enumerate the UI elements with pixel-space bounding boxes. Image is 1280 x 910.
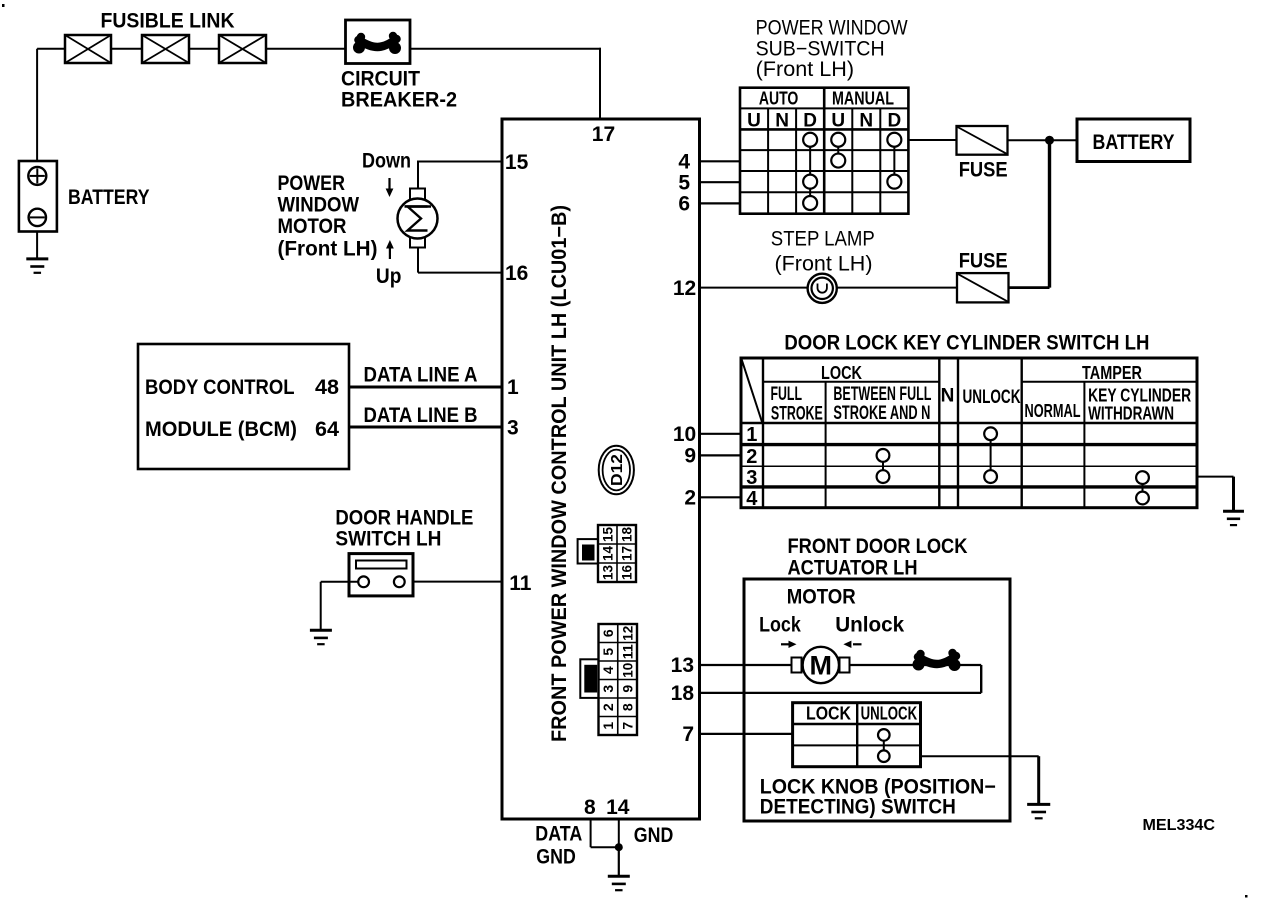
svg-text:17: 17 xyxy=(592,123,615,146)
wire pin 2 to key cylinder row4 xyxy=(700,496,742,498)
svg-text:1: 1 xyxy=(600,722,616,730)
connector 13-18 key tab xyxy=(578,539,598,563)
svg-text:DOOR LOCK KEY CYLINDER SWITCH: DOOR LOCK KEY CYLINDER SWITCH LH xyxy=(784,332,1149,355)
svg-text:15: 15 xyxy=(600,527,616,542)
wire circuit breaker to pin 17 corner xyxy=(410,48,601,50)
svg-text:FUSIBLE LINK: FUSIBLE LINK xyxy=(101,10,235,33)
svg-text:14: 14 xyxy=(600,546,616,561)
sub-switch link auto-D rows3-4 xyxy=(809,189,811,196)
svg-text:10: 10 xyxy=(619,663,635,678)
svg-text:M: M xyxy=(810,651,833,681)
svg-text:GND: GND xyxy=(634,824,674,847)
svg-text:ACTUATOR LH: ACTUATOR LH xyxy=(788,557,918,580)
battery (left) symbol xyxy=(19,161,57,232)
wire fusible link 3 to circuit breaker xyxy=(266,48,346,50)
key cylinder contact between row2 xyxy=(877,449,890,462)
up arrow xyxy=(386,240,394,259)
key cylinder contact withdrawn row4 xyxy=(1136,492,1149,505)
svg-text:18: 18 xyxy=(671,682,695,705)
sub-switch contact manual-D row3 xyxy=(887,175,901,189)
svg-text:POWER: POWER xyxy=(278,172,346,195)
svg-text:N: N xyxy=(775,111,789,132)
ground (battery) xyxy=(26,259,48,273)
svg-text:13: 13 xyxy=(600,565,616,580)
svg-text:8: 8 xyxy=(584,796,596,819)
wire between fusible links 1-2 xyxy=(111,48,142,50)
wire sub-switch to fuse xyxy=(908,139,956,141)
svg-text:2: 2 xyxy=(746,446,757,468)
front door lock actuator box xyxy=(744,579,1010,821)
svg-text:2: 2 xyxy=(600,703,616,711)
svg-text:BATTERY: BATTERY xyxy=(68,186,150,209)
wire pin 5 to sub-switch xyxy=(700,181,741,183)
svg-text:DOOR HANDLE: DOOR HANDLE xyxy=(335,507,473,530)
fusible link 2 xyxy=(142,35,189,63)
svg-text:SWITCH LH: SWITCH LH xyxy=(335,528,441,551)
svg-text:TAMPER: TAMPER xyxy=(1082,363,1142,383)
wire fuse to junction xyxy=(1008,139,1078,141)
svg-text:AUTO: AUTO xyxy=(759,89,799,109)
key cylinder row numbers 1-4 xyxy=(746,424,758,510)
svg-text:MOTOR: MOTOR xyxy=(278,215,347,238)
svg-text:(Front LH): (Front LH) xyxy=(278,238,378,261)
svg-text:DATA LINE A: DATA LINE A xyxy=(364,364,478,387)
junction pin8/pin14 grounds xyxy=(615,843,623,851)
ground (key cylinder switch) xyxy=(1223,511,1244,525)
body control module (BCM) box xyxy=(138,344,349,469)
svg-text:MEL334C: MEL334C xyxy=(1143,817,1216,834)
label DOOR HANDLE SWITCH LH xyxy=(335,507,473,551)
label BODY CONTROL 48 xyxy=(145,376,339,399)
key cylinder link unlock rows1-3 xyxy=(990,440,992,470)
svg-text:LOCK: LOCK xyxy=(821,363,862,383)
svg-text:NORMAL: NORMAL xyxy=(1025,401,1081,421)
svg-text:4: 4 xyxy=(600,666,616,674)
svg-text:1: 1 xyxy=(746,424,757,446)
key cylinder contact between row3 xyxy=(877,470,890,483)
wire battery B+ riser xyxy=(36,49,38,167)
label LOCK KNOB (POSITION- DETECTING) SWITCH xyxy=(760,776,996,819)
svg-text:48: 48 xyxy=(315,376,339,399)
svg-text:16: 16 xyxy=(505,262,528,285)
svg-text:10: 10 xyxy=(673,423,696,446)
svg-text:5: 5 xyxy=(600,648,616,656)
svg-text:FRONT POWER WINDOW CONTROL UNI: FRONT POWER WINDOW CONTROL UNIT LH (LCU0… xyxy=(548,205,571,742)
svg-text:U: U xyxy=(831,111,845,132)
svg-text:STROKE: STROKE xyxy=(771,404,823,425)
key cylinder contact withdrawn row3 xyxy=(1136,471,1149,484)
svg-text:STEP LAMP: STEP LAMP xyxy=(771,228,875,251)
svg-text:17: 17 xyxy=(619,546,635,561)
connector view D12 oval xyxy=(599,446,634,495)
sub-switch contact auto-D row1 xyxy=(803,133,817,147)
power window sub-switch table xyxy=(740,88,908,214)
ground (unit pins 8/14) xyxy=(608,876,630,890)
svg-text:POWER WINDOW: POWER WINDOW xyxy=(756,17,908,40)
wire loop back to pin 18 xyxy=(700,665,982,693)
svg-text:BREAKER-2: BREAKER-2 xyxy=(341,89,457,112)
svg-text:DATA LINE B: DATA LINE B xyxy=(364,404,478,427)
svg-text:12: 12 xyxy=(673,277,696,300)
svg-text:12: 12 xyxy=(619,626,635,641)
svg-text:2: 2 xyxy=(684,486,696,509)
label DATA GND xyxy=(535,823,582,869)
label KEY CYLINDER WITHDRAWN xyxy=(1088,386,1191,424)
wire battery feed down to step lamp fuse xyxy=(1009,140,1050,287)
step lamp (Front LH) xyxy=(808,274,837,303)
wire pin 7 to lock knob switch xyxy=(700,733,793,735)
sub-switch contact manual-U row2 xyxy=(831,154,845,168)
sub-switch contact auto-D row4 xyxy=(803,196,817,210)
door lock motor M2 xyxy=(792,647,850,683)
svg-text:9: 9 xyxy=(619,685,635,693)
svg-text:STROKE AND N: STROKE AND N xyxy=(833,403,930,424)
sub-switch link manual-D xyxy=(893,147,895,175)
wire pin 10 to key cylinder row1 xyxy=(700,433,742,435)
svg-text:UNLOCK: UNLOCK xyxy=(963,387,1021,408)
svg-text:16: 16 xyxy=(619,565,635,580)
svg-text:N: N xyxy=(941,386,955,407)
wire between fusible links 2-3 xyxy=(189,48,219,50)
wire motor to pin 16 xyxy=(418,248,502,273)
battery positive terminal xyxy=(28,167,46,185)
wire pin 8 data ground xyxy=(591,819,619,847)
door handle switch contact left xyxy=(358,576,369,587)
control unit LCU01-B box xyxy=(502,119,700,819)
svg-text:FUSE: FUSE xyxy=(959,250,1008,273)
svg-text:1: 1 xyxy=(507,376,519,399)
svg-text:BODY CONTROL: BODY CONTROL xyxy=(145,376,295,399)
svg-text:DATA: DATA xyxy=(535,823,582,846)
wire drop to pin 17 xyxy=(599,48,601,119)
svg-text:(Front LH): (Front LH) xyxy=(775,253,873,276)
wire door handle switch to pin 11 xyxy=(405,581,502,583)
svg-text:MOTOR: MOTOR xyxy=(787,586,856,609)
battery negative terminal xyxy=(29,209,46,226)
lock knob switch table xyxy=(793,703,921,767)
sub-switch column letters U N D U N D xyxy=(747,111,901,132)
svg-text:FUSE: FUSE xyxy=(959,159,1008,182)
key cylinder link between rows2-3 xyxy=(882,462,884,470)
svg-text:MODULE (BCM): MODULE (BCM) xyxy=(145,418,297,441)
svg-text:DETECTING) SWITCH: DETECTING) SWITCH xyxy=(760,796,956,819)
fusible link 3 xyxy=(219,35,266,63)
svg-text:6: 6 xyxy=(600,629,616,637)
lock knob contact row1 xyxy=(878,729,890,741)
wire pin 15 to motor xyxy=(418,161,502,191)
svg-text:3: 3 xyxy=(746,467,757,489)
wire door handle switch to ground xyxy=(321,582,359,631)
svg-text:18: 18 xyxy=(619,527,635,542)
label STEP LAMP (Front LH) xyxy=(771,228,875,276)
door handle switch contact right xyxy=(394,576,405,587)
lock knob contact row2 xyxy=(878,750,890,762)
svg-text:7: 7 xyxy=(682,723,694,746)
svg-text:KEY CYLINDER: KEY CYLINDER xyxy=(1088,386,1191,406)
key cylinder contact unlock row1 xyxy=(984,427,997,440)
wire key cylinder row3 to ground xyxy=(1197,477,1234,511)
wire pin 6 to sub-switch xyxy=(700,202,741,204)
ground (lock knob switch) xyxy=(1027,804,1050,818)
down arrow xyxy=(386,178,394,197)
key cylinder switch table xyxy=(741,358,1197,508)
unlock direction arrow xyxy=(843,641,861,648)
wire junction to ground xyxy=(618,847,620,876)
svg-text:WINDOW: WINDOW xyxy=(278,194,360,217)
door handle switch S1 xyxy=(349,554,413,596)
svg-text:3: 3 xyxy=(507,417,519,440)
svg-text:8: 8 xyxy=(619,703,635,711)
sub-switch contact auto-D row3 xyxy=(803,175,817,189)
svg-text:UNLOCK: UNLOCK xyxy=(861,704,918,724)
label MODULE (BCM) 64 xyxy=(145,418,339,441)
label FRONT DOOR LOCK ACTUATOR LH xyxy=(788,535,968,580)
svg-text:6: 6 xyxy=(678,193,690,216)
battery feed box BATTERY xyxy=(1077,119,1190,162)
svg-text:4: 4 xyxy=(678,151,690,174)
svg-text:4: 4 xyxy=(746,488,758,510)
label BETWEEN FULL STROKE AND N xyxy=(833,384,931,424)
wire pin 4 to sub-switch xyxy=(700,160,741,162)
svg-text:15: 15 xyxy=(505,151,529,174)
connector pin-grid 13-18 xyxy=(598,525,636,582)
fuse (step lamp) xyxy=(957,273,1009,302)
svg-text:GND: GND xyxy=(536,846,576,869)
sub-switch contact manual-D row1 xyxy=(887,133,901,147)
svg-text:(Front LH): (Front LH) xyxy=(756,58,855,81)
lock knob link rows1-2 xyxy=(883,741,885,751)
connector pin-grid 1-12 xyxy=(599,624,638,735)
svg-text:9: 9 xyxy=(684,444,696,467)
wire motor to thermal element xyxy=(850,664,982,666)
wire data line B (BCM 64 to pin 3) xyxy=(349,426,502,429)
svg-text:FULL: FULL xyxy=(771,384,803,405)
wire pin 9 to key cylinder row2 xyxy=(700,454,742,456)
svg-text:LOCK: LOCK xyxy=(806,704,851,724)
circuit breaker CB-2 xyxy=(346,20,411,64)
svg-text:BETWEEN FULL: BETWEEN FULL xyxy=(833,384,931,405)
key cylinder link withdrawn rows3-4 xyxy=(1142,484,1144,491)
svg-text:64: 64 xyxy=(315,418,339,441)
wire pin 14 ground xyxy=(618,819,620,847)
thermal protector element xyxy=(913,649,961,671)
sub-switch contact manual-U row1 xyxy=(831,133,845,147)
svg-text:FRONT DOOR LOCK: FRONT DOOR LOCK xyxy=(788,535,968,558)
svg-text:11: 11 xyxy=(619,644,635,659)
svg-text:Up: Up xyxy=(376,265,402,288)
connector 1-12 key tab xyxy=(580,659,598,698)
svg-text:Lock: Lock xyxy=(759,614,801,637)
fuse (power window) xyxy=(957,126,1008,155)
key cylinder contact unlock row3 xyxy=(984,470,997,483)
svg-text:14: 14 xyxy=(606,796,630,819)
wire data line A (BCM 48 to pin 1) xyxy=(349,386,502,389)
svg-text:Unlock: Unlock xyxy=(835,614,904,637)
svg-text:BATTERY: BATTERY xyxy=(1093,131,1175,154)
wire lock knob switch to ground xyxy=(921,756,1039,804)
label POWER WINDOW SUB-SWITCH (Front LH) xyxy=(756,17,908,82)
svg-text:13: 13 xyxy=(671,654,694,677)
sub-switch contact link auto-D xyxy=(809,147,811,175)
sub-switch link manual-U rows1-2 xyxy=(837,147,839,154)
svg-text:Down: Down xyxy=(362,150,411,173)
svg-text:D: D xyxy=(887,111,901,132)
fusible link 1 xyxy=(65,35,111,63)
svg-text:7: 7 xyxy=(619,722,635,730)
svg-text:11: 11 xyxy=(509,572,532,595)
junction battery feed xyxy=(1045,136,1054,145)
svg-text:N: N xyxy=(859,111,873,132)
svg-text:U: U xyxy=(747,111,761,132)
lock direction arrow xyxy=(781,641,797,648)
svg-text:D12: D12 xyxy=(609,454,626,486)
label FULL STROKE xyxy=(771,384,823,425)
wire top rail segment 1 xyxy=(37,48,65,50)
power window motor M1 xyxy=(398,189,438,248)
svg-text:CIRCUIT: CIRCUIT xyxy=(341,68,420,91)
label POWER WINDOW MOTOR (Front LH) xyxy=(278,172,378,261)
ground (door handle switch) xyxy=(310,630,332,644)
svg-text:WITHDRAWN: WITHDRAWN xyxy=(1088,404,1174,424)
svg-text:5: 5 xyxy=(678,171,690,194)
svg-text:D: D xyxy=(803,111,817,132)
wire battery to ground xyxy=(36,231,38,260)
wire pin 12 to step lamp and fuse xyxy=(700,287,958,289)
svg-text:SUB−SWITCH: SUB−SWITCH xyxy=(756,37,885,60)
svg-text:MANUAL: MANUAL xyxy=(832,89,894,109)
wire pin 13 to door lock motor xyxy=(700,664,793,666)
svg-text:3: 3 xyxy=(600,685,616,693)
